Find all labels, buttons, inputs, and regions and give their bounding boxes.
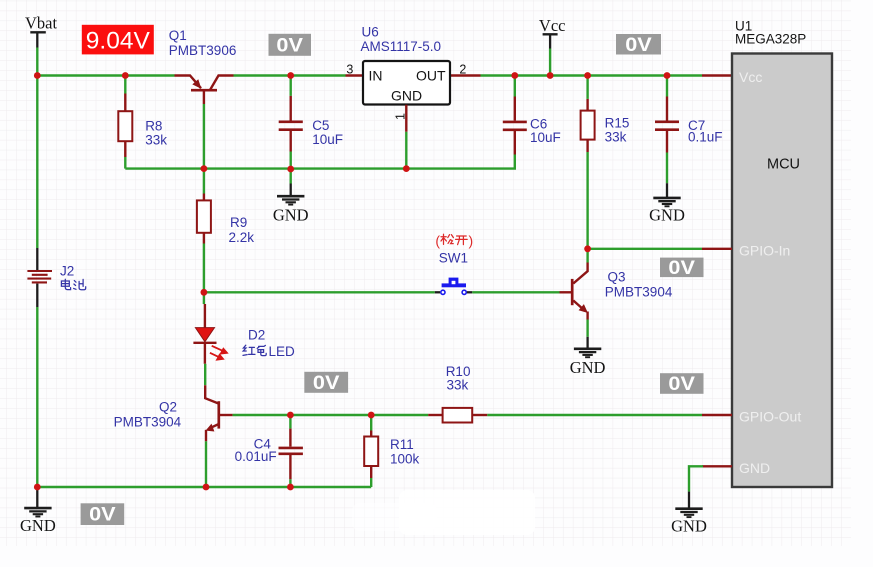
svg-text:0.01uF: 0.01uF: [235, 449, 277, 464]
svg-text:J2: J2: [60, 263, 74, 278]
label C5: [312, 118, 329, 133]
resistor R15: [581, 76, 595, 153]
svg-text:0.1uF: 0.1uF: [688, 130, 723, 145]
junction top rail at Vcc: [547, 72, 554, 79]
svg-text:GPIO-Out: GPIO-Out: [739, 409, 801, 425]
capacitor C6: [503, 76, 527, 155]
ground below Q3: [570, 337, 606, 377]
wire top rail Q1 emitter lead: [175, 76, 202, 89]
svg-text:0V: 0V: [625, 35, 652, 56]
svg-text:Vcc: Vcc: [539, 16, 566, 35]
svg-text:GND: GND: [20, 516, 56, 535]
transistor Q2: [205, 364, 219, 442]
junction top rail at R15: [584, 72, 591, 79]
svg-text:Q2: Q2: [159, 400, 177, 415]
watermark blob: [352, 490, 535, 535]
wire GPIO-In row green: [588, 248, 702, 250]
node Vbat: [25, 13, 57, 47]
label U6 value: [361, 39, 442, 54]
svg-text:0V: 0V: [313, 373, 340, 394]
label R8 value: [145, 132, 167, 147]
svg-text:GND: GND: [570, 358, 606, 377]
switch SW1: [435, 278, 473, 295]
label Q3: [608, 270, 626, 285]
wire GND bend: [689, 466, 703, 491]
capacitor C4: [279, 415, 303, 487]
svg-text:GND: GND: [671, 517, 707, 536]
transistor Q3: [572, 263, 588, 320]
label Q3 value: [605, 284, 673, 299]
svg-text:PMBT3904: PMBT3904: [114, 415, 182, 430]
label C7 value: [688, 130, 723, 145]
label SW1: [439, 250, 468, 265]
label SW1 state (松开): [435, 233, 473, 249]
wire U1 Vcc pin lead: [702, 74, 732, 76]
wire top rail green right: [481, 74, 703, 76]
svg-text:GPIO-In: GPIO-In: [739, 242, 790, 258]
label Q2: [159, 400, 177, 415]
resistor R8: [118, 111, 132, 141]
node Vcc: [539, 16, 566, 49]
svg-text:SW1: SW1: [439, 250, 468, 265]
capacitor C7: [655, 76, 679, 184]
label C6: [530, 116, 547, 131]
battery J2: [27, 248, 52, 307]
wire left rail lower: [36, 307, 38, 487]
wire GPIO-Out row right green: [487, 414, 702, 416]
wire bottom rail: [37, 486, 371, 488]
svg-text:(: (: [435, 233, 440, 249]
svg-text:0V: 0V: [668, 374, 695, 395]
voltage label 0V (GPIO-Out): [660, 373, 704, 395]
voltage label 0V (top middle): [269, 34, 312, 57]
label R15: [605, 116, 630, 131]
capacitor C5: [279, 76, 303, 170]
wire SW row left: [204, 291, 435, 293]
junction GPIO-Out at R11: [368, 412, 375, 419]
svg-text:0V: 0V: [89, 505, 116, 526]
svg-text:10uF: 10uF: [530, 130, 561, 145]
svg-text:2: 2: [459, 63, 466, 77]
label Q2 value: [114, 415, 182, 430]
wire Q3 emitter down: [586, 320, 588, 337]
svg-text:PMBT3904: PMBT3904: [605, 284, 673, 299]
wire top rail green mid: [234, 74, 346, 76]
junction GPIO-In at Q3: [584, 245, 591, 252]
label R9 value: [229, 230, 255, 245]
label U1 value: [735, 31, 806, 46]
label J2: [60, 263, 74, 278]
svg-text:U6: U6: [362, 25, 379, 40]
svg-text:R9: R9: [230, 215, 247, 230]
label U1: [735, 19, 752, 34]
junction bottom rail at battery: [34, 484, 41, 491]
voltage label 0V (top right): [616, 34, 661, 56]
svg-text:10uF: 10uF: [312, 132, 343, 147]
wire U1 GPIO-In pin lead: [702, 248, 732, 250]
label Q1: [169, 28, 187, 43]
wire Q3 collector from node: [586, 249, 588, 263]
svg-text:2.2k: 2.2k: [229, 230, 255, 245]
label D2: [248, 328, 265, 343]
svg-text:GND: GND: [391, 87, 422, 103]
wire R8 bottom lead: [124, 141, 126, 168]
svg-text:Vbat: Vbat: [25, 13, 57, 32]
svg-text:0V: 0V: [668, 258, 695, 279]
label C5 value: [312, 132, 343, 147]
svg-text:IN: IN: [369, 67, 383, 83]
wire U6 IN pin lead: [346, 74, 364, 76]
label R8: [145, 119, 162, 134]
svg-text:OUT: OUT: [416, 67, 446, 83]
junction top rail at C6: [511, 72, 518, 79]
svg-text:R11: R11: [390, 437, 414, 452]
wire mid rail: [125, 155, 515, 169]
svg-text:9.04V: 9.04V: [86, 27, 151, 54]
svg-text:33k: 33k: [605, 129, 627, 144]
label 9.04V probe: [82, 25, 154, 55]
voltage label 0V (GPIO-In): [660, 258, 704, 279]
pin number 2 (U6 OUT): [459, 63, 466, 77]
svg-text:D2: D2: [248, 328, 265, 343]
wire U1 GPIO-Out pin lead: [702, 414, 732, 416]
junction top rail at C5: [287, 72, 294, 79]
svg-text:Q3: Q3: [608, 270, 626, 285]
regulator U6: [363, 61, 450, 105]
wire Vbat stem: [36, 48, 38, 76]
junction mid rail at C5: [287, 166, 294, 173]
junction top rail at Vbat: [34, 72, 41, 79]
svg-text:33k: 33k: [145, 132, 167, 147]
svg-text:0V: 0V: [276, 35, 303, 56]
resistor R10: [428, 408, 487, 423]
label C7: [688, 118, 705, 133]
wire R15 to GPIO-In: [586, 152, 588, 249]
junction GPIO-Out at C4: [287, 412, 294, 419]
wire Q2 emitter down: [205, 441, 207, 487]
wire Q1 base down: [203, 104, 205, 169]
wire Q2 base lead: [219, 414, 233, 416]
svg-text:LED: LED: [269, 344, 296, 359]
svg-text:): ): [468, 233, 473, 249]
MCU U1: [732, 54, 832, 488]
svg-text:3: 3: [346, 63, 353, 77]
LED D2 light arrows: [210, 346, 227, 360]
ground bottom left: [20, 487, 56, 535]
svg-text:GND: GND: [273, 206, 309, 225]
wire left rail upper: [36, 76, 38, 249]
wire SW row right: [472, 291, 559, 293]
junction SW row at R9: [201, 289, 208, 296]
svg-text:PMBT3906: PMBT3906: [169, 43, 237, 58]
junction bottom rail at C4: [287, 484, 294, 491]
label C6 value: [530, 130, 561, 145]
resistor R11: [364, 415, 378, 487]
junction bottom rail at Q2: [203, 484, 210, 491]
junction mid rail at R9: [201, 165, 208, 172]
voltage label 0V (mid bottom): [304, 372, 348, 394]
svg-text:MEGA328P: MEGA328P: [735, 31, 806, 46]
junction mid rail at U6 GND: [403, 165, 410, 172]
wire top rail green left: [37, 74, 174, 76]
label C4 value: [235, 449, 277, 464]
voltage label 0V (bottom left): [81, 503, 125, 525]
wire Vcc stem: [549, 49, 551, 76]
svg-text:33k: 33k: [447, 378, 469, 393]
label R11: [390, 437, 414, 452]
label Q1 value: [169, 43, 237, 58]
svg-text:MCU: MCU: [767, 156, 800, 172]
junction top rail at C7: [664, 72, 671, 79]
svg-text:Q1: Q1: [169, 28, 187, 43]
svg-text:GND: GND: [649, 205, 685, 224]
svg-text:R10: R10: [446, 364, 471, 379]
ground bottom right: [671, 492, 707, 536]
wire Q3 base lead: [560, 291, 572, 293]
ground below C5: [273, 169, 309, 225]
svg-text:100k: 100k: [390, 452, 420, 467]
label R10: [446, 364, 471, 379]
resistor R9: [197, 169, 211, 293]
junction top rail at R8: [122, 72, 129, 79]
svg-text:C5: C5: [312, 118, 329, 133]
wire top rail Q1 collector lead: [210, 76, 234, 91]
label R15 value: [605, 129, 627, 144]
label R9: [230, 215, 247, 230]
ground below C7: [649, 183, 685, 224]
pin number 3 (U6 IN): [346, 63, 353, 77]
pin number 1 (U6 GND): [394, 113, 408, 120]
svg-text:Vcc: Vcc: [739, 69, 762, 85]
label R10 value: [447, 378, 469, 393]
wire U6 OUT pin lead: [450, 74, 481, 76]
label U6: [362, 25, 379, 40]
wire GPIO-Out row left green: [233, 414, 429, 416]
transistor Q1: [191, 79, 217, 104]
label R11 value: [390, 452, 420, 467]
svg-text:AMS1117-5.0: AMS1117-5.0: [361, 39, 442, 54]
label C4: [254, 437, 272, 452]
label J2 value 电池: [61, 279, 85, 290]
wire U1 GND pin lead: [702, 465, 732, 467]
LED D2: [193, 292, 216, 364]
wire R8 top lead: [124, 76, 126, 112]
svg-text:GND: GND: [739, 460, 770, 476]
wire U6 GND pin lead: [405, 105, 407, 169]
label D2 value 红色LED: [243, 344, 295, 359]
